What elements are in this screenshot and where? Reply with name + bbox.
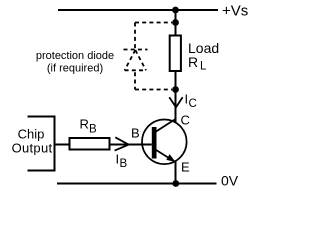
svg-text:B: B xyxy=(131,126,140,141)
emitter arrowhead xyxy=(166,154,175,162)
resistor RB xyxy=(70,138,110,150)
svg-text:B: B xyxy=(120,158,128,170)
current arrow IB xyxy=(115,137,129,150)
svg-text:Output: Output xyxy=(12,141,53,156)
svg-text:B: B xyxy=(89,124,97,136)
wire: dashed diode cathode lead (bottom) xyxy=(134,72,136,89)
svg-text:L: L xyxy=(200,61,207,73)
node: junction of rail and load branch xyxy=(172,7,179,14)
node: junction of emitter and 0V rail xyxy=(172,180,179,187)
svg-text:C: C xyxy=(181,113,190,128)
current arrow IC xyxy=(169,97,182,107)
wire: rail down to load resistor xyxy=(175,10,177,36)
transistor Q1 (NPN) xyxy=(142,119,187,164)
svg-text:R: R xyxy=(188,54,198,70)
wire: collector vertical wire xyxy=(175,90,177,123)
collector diagonal xyxy=(155,119,176,133)
base bar xyxy=(152,127,157,159)
wire: dashed link diode top to junction xyxy=(135,22,172,24)
svg-text:R: R xyxy=(80,117,89,132)
wire: load resistor to collector node xyxy=(175,71,177,90)
transistor body circle xyxy=(142,120,187,165)
svg-text:0V: 0V xyxy=(221,173,239,189)
node: junction of diode top and load branch xyxy=(172,19,179,26)
chip output bracket xyxy=(28,117,55,171)
diode D1 protection (dashed symbol) xyxy=(124,50,148,71)
svg-text:C: C xyxy=(189,98,197,110)
svg-text:+Vs: +Vs xyxy=(222,3,248,20)
svg-text:(if required): (if required) xyxy=(47,63,103,75)
wire: +Vs supply rail xyxy=(58,9,218,11)
svg-text:Chip: Chip xyxy=(18,127,45,142)
node: junction of diode bottom and collector branch xyxy=(172,86,179,93)
svg-text:protection diode: protection diode xyxy=(36,50,114,62)
wire: resistor RB to transistor base xyxy=(110,144,152,146)
resistor RL (Load) xyxy=(170,36,181,72)
wire: 0V rail xyxy=(57,183,217,185)
wire: dashed link diode bottom to collector junction xyxy=(135,89,172,91)
emitter diagonal xyxy=(155,149,176,162)
svg-text:E: E xyxy=(181,160,190,175)
wire: emitter to 0V rail xyxy=(175,162,177,184)
wire: dashed diode anode lead (top) xyxy=(134,23,136,50)
wire: chip output to resistor RB xyxy=(55,144,70,146)
